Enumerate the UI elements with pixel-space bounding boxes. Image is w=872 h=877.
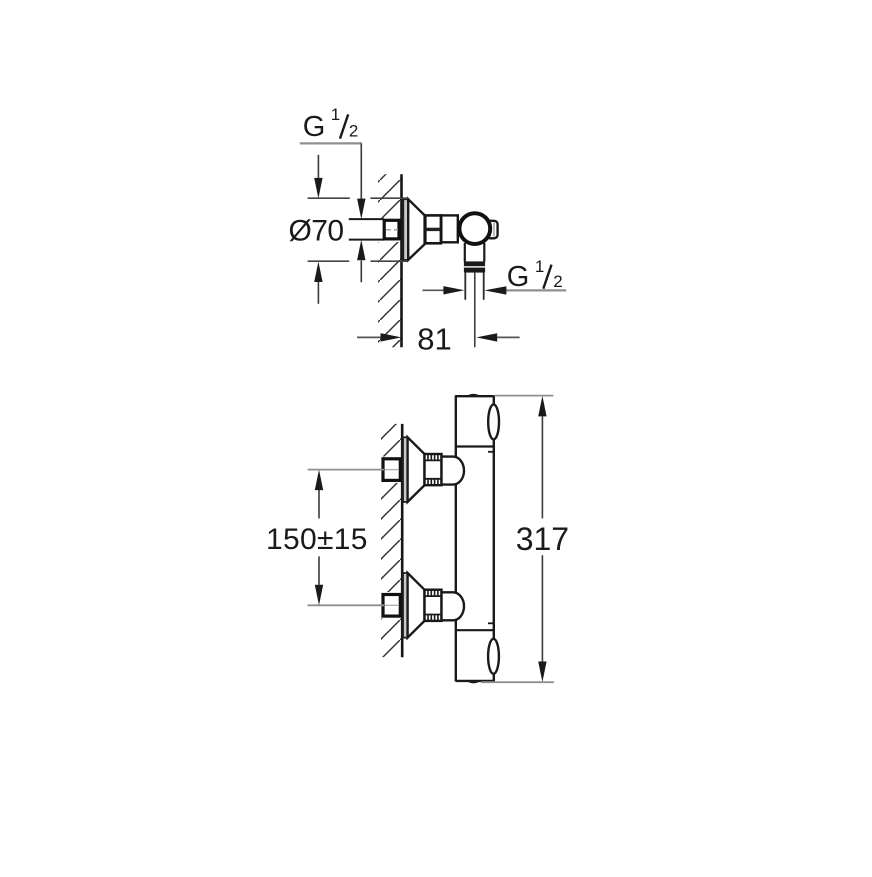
svg-text:1: 1 [331,105,340,124]
svg-text:1: 1 [535,257,544,276]
svg-text:Ø70: Ø70 [289,215,344,248]
svg-text:317: 317 [516,521,569,557]
svg-text:G: G [507,261,530,293]
svg-text:150±15: 150±15 [266,523,368,556]
svg-text:G: G [303,111,326,143]
svg-text:2: 2 [553,272,562,291]
svg-text:81: 81 [417,321,451,356]
svg-text:2: 2 [349,122,358,141]
